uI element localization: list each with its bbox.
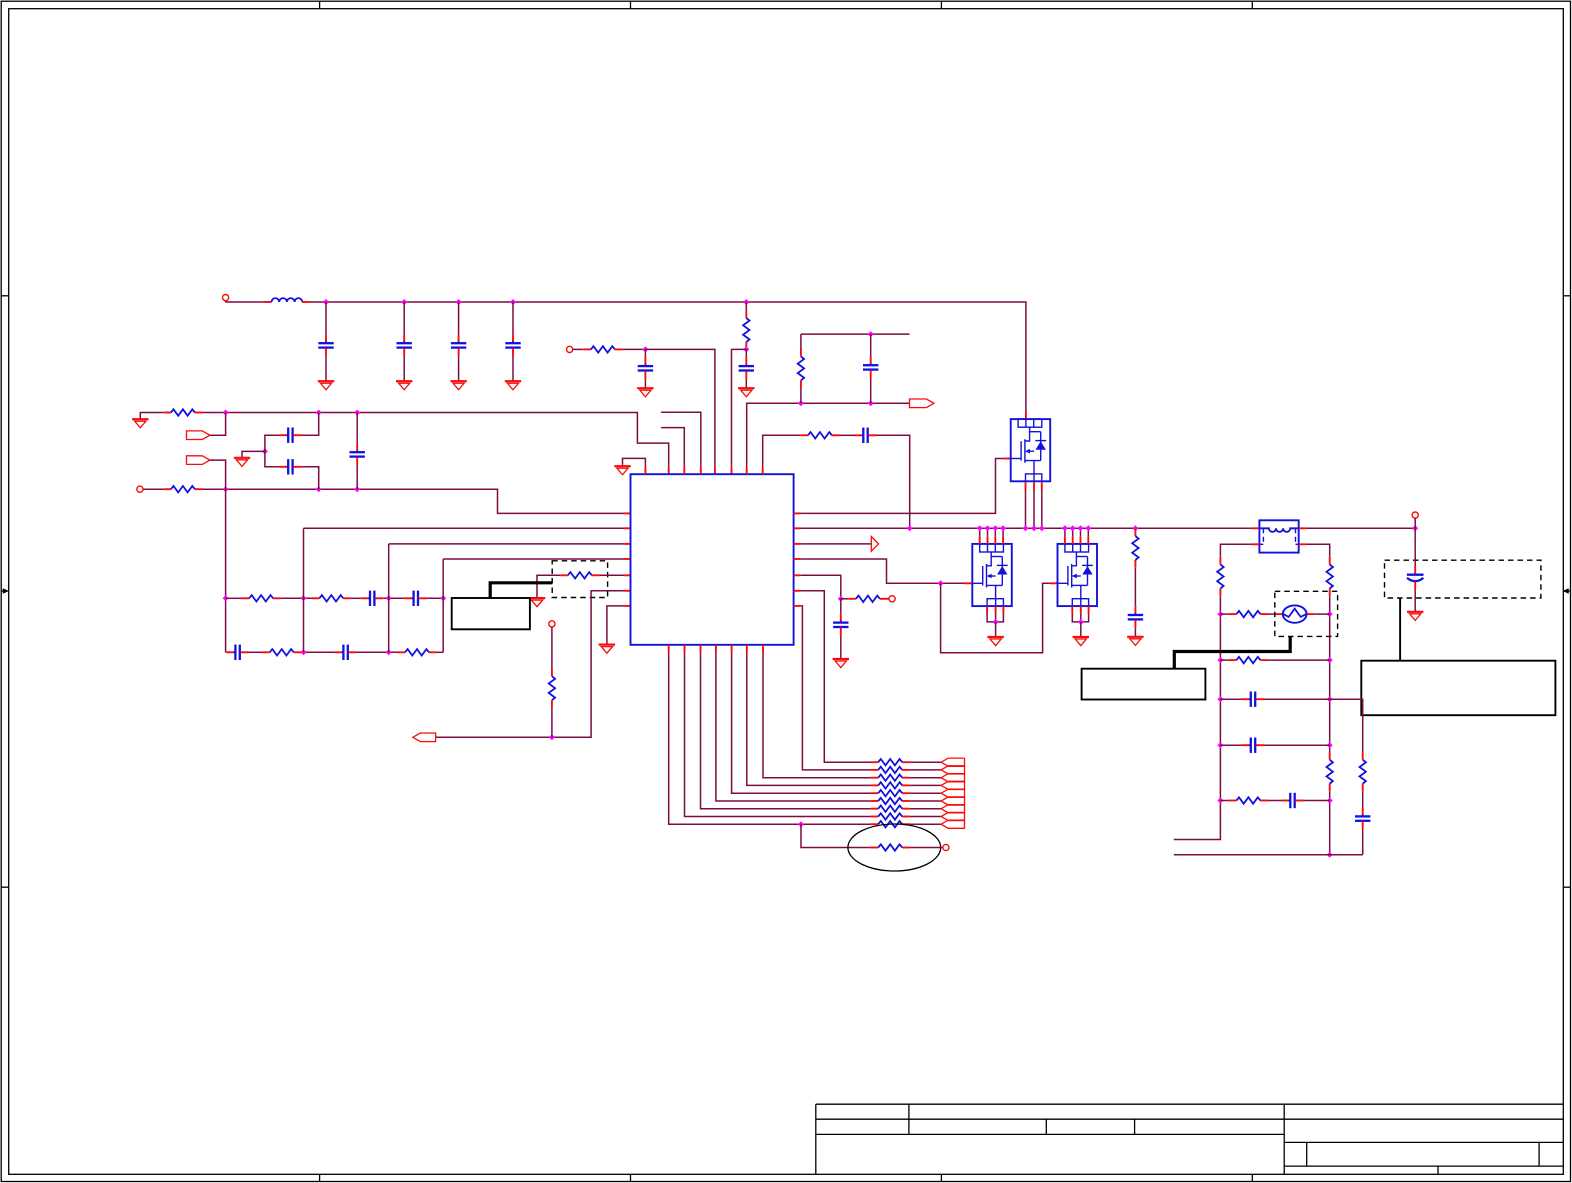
resistor R3 vertical bbox=[743, 310, 749, 349]
wire row5 to connector bbox=[910, 792, 941, 794]
terminal J8 pack+ bbox=[1412, 512, 1418, 518]
resistor R4 bbox=[798, 349, 804, 388]
wire C2 drop bbox=[403, 302, 405, 334]
wire row5 seg1 bbox=[1220, 800, 1228, 802]
wire ladder vertical 2 bbox=[303, 528, 305, 652]
pin stub IC top 3 bbox=[683, 466, 685, 474]
pin stub IC right 6 bbox=[794, 590, 801, 592]
wire cell row 6 feed bbox=[716, 653, 871, 801]
junction B3 bbox=[354, 486, 360, 492]
pin stub IC right 2 bbox=[794, 527, 801, 529]
capacitor C14 bbox=[405, 591, 427, 606]
pin stub Q3 gate bbox=[1050, 582, 1058, 584]
ground at C3 bbox=[450, 381, 466, 390]
wire C22 to bottom node bbox=[1362, 830, 1364, 855]
capacitor C2 bbox=[397, 334, 412, 356]
junction row9 / motor branch bbox=[798, 821, 804, 827]
wire R3 node to IC pin bbox=[732, 349, 747, 466]
wire C4 to ground bbox=[512, 356, 514, 381]
wire row6 to connector bbox=[910, 800, 941, 802]
wire cell row 9 feed bbox=[669, 653, 871, 825]
junction Q2 d3 bbox=[992, 525, 998, 531]
resistor RN7 bbox=[871, 806, 910, 812]
junction R6r bbox=[1327, 852, 1333, 858]
pin stub IC bottom 1 bbox=[668, 645, 670, 653]
wire J8 to junction bbox=[1414, 518, 1416, 528]
capacitor C17 bbox=[855, 428, 877, 443]
wire line A to C7 bbox=[356, 413, 358, 444]
wire R13 to J5 bbox=[888, 598, 890, 600]
wire fuse sense right bbox=[1306, 544, 1330, 557]
wire R2 to C8 node bbox=[623, 348, 646, 350]
wire row7 to connector bbox=[910, 808, 941, 810]
junction FB top/C10 bbox=[868, 331, 874, 337]
thick wire thermistor to B2 bbox=[1174, 636, 1290, 668]
resistor R13 bbox=[848, 596, 887, 602]
wire status net bbox=[800, 543, 871, 545]
junction FB/C10 bbox=[868, 400, 874, 406]
wire P2 down left rail bbox=[210, 460, 226, 652]
wire motor branch bbox=[801, 824, 871, 847]
wire series RC net bbox=[763, 435, 801, 466]
wire R21 to C22 bbox=[1362, 791, 1364, 807]
wire upper rail seg5 bbox=[427, 597, 443, 599]
resistor RN6 bbox=[871, 798, 910, 804]
resistor R10 bbox=[397, 649, 436, 655]
junction L3r bbox=[1217, 696, 1223, 702]
capacitor C18 polarized bbox=[1407, 566, 1424, 590]
wire cell row 2 feed bbox=[800, 606, 871, 770]
pin stub fuse left top bbox=[1252, 527, 1260, 529]
wire cell row 5 feed bbox=[732, 653, 871, 794]
ground Q2 bbox=[987, 637, 1003, 646]
pin stub IC left 2 bbox=[624, 527, 631, 529]
wire C10 top bbox=[870, 334, 872, 356]
junction L4r bbox=[1217, 742, 1223, 748]
ground at C1 bbox=[318, 381, 334, 390]
wire lower rail seg4 bbox=[357, 651, 398, 653]
wire R5 to C17 bbox=[840, 434, 855, 436]
junction R5r bbox=[1327, 798, 1333, 804]
junction R2r bbox=[1327, 657, 1333, 663]
wire node to ground arm bbox=[242, 451, 265, 457]
junction B1 bbox=[223, 486, 229, 492]
battery block B2 bbox=[1082, 669, 1206, 700]
connector J6 pin 1 bbox=[941, 758, 964, 766]
pin stub IC right 3 bbox=[794, 543, 801, 545]
junction lower rail C16a bbox=[386, 649, 392, 655]
ground C12 bbox=[1127, 637, 1143, 646]
wire Q2 source to ground bbox=[995, 622, 997, 637]
junction pack bbox=[1412, 525, 1418, 531]
dashed box ESD bbox=[1385, 560, 1541, 598]
wire junction to C18 bbox=[1414, 528, 1416, 566]
junction A3 bbox=[354, 410, 360, 416]
pin stub IC left 5 bbox=[624, 574, 631, 576]
connector J6 pin 6 bbox=[941, 797, 964, 805]
arrow terminal PROG bbox=[413, 733, 436, 742]
wire Q3 source pins tied bbox=[1072, 606, 1088, 622]
pin stub IC top 2 bbox=[668, 466, 670, 474]
wire upper rail seg3 bbox=[351, 597, 361, 599]
ground C11 bbox=[833, 659, 849, 668]
ground at C4 bbox=[505, 381, 521, 390]
wire J1 to L1 bbox=[226, 301, 264, 303]
resistor R16 right rail bbox=[1327, 557, 1333, 596]
wire Q3 source to ground bbox=[1080, 622, 1082, 637]
wire lower rail seg5 bbox=[437, 651, 444, 653]
thick wire B1 to shunt bbox=[490, 583, 552, 598]
junction Q3 d3 bbox=[1078, 525, 1084, 531]
wire C4 drop bbox=[512, 302, 514, 334]
wire net FB bbox=[747, 403, 910, 466]
junction upper rail C14a bbox=[440, 595, 446, 601]
junction top rail at C2 bbox=[401, 299, 407, 305]
wire row3 to connector bbox=[910, 777, 941, 779]
wire Q2 drain pins to SW rail bbox=[980, 528, 1003, 544]
wire row3 seg1 bbox=[1220, 698, 1242, 700]
wire Q1 source pins to SW rail bbox=[1026, 482, 1042, 528]
ground at C9 bbox=[738, 388, 754, 397]
resistor R14 (in M1) bbox=[871, 844, 910, 850]
capacitor C11 bbox=[833, 614, 848, 636]
resistor RN5 bbox=[871, 790, 910, 796]
wire C7 to line B bbox=[356, 465, 358, 489]
pin stub IC bottom 5 bbox=[731, 645, 733, 653]
ground at C8 bbox=[637, 388, 653, 397]
ground Q3 bbox=[1073, 637, 1089, 646]
transistor Q2 bbox=[972, 544, 1012, 606]
pin stub IC bottom 4 bbox=[715, 645, 717, 653]
capacitor C7 between lines bbox=[350, 443, 365, 465]
wire P1 to line A bbox=[210, 413, 226, 436]
wire IC pin6 to PROG arrow bbox=[436, 591, 624, 738]
wire FB top rail bbox=[801, 333, 910, 335]
pin stub IC left 1 bbox=[624, 512, 631, 514]
border centre arrow right bbox=[1563, 590, 1570, 592]
pin stub IC right 4 bbox=[794, 558, 801, 560]
resistor RN1 bbox=[871, 759, 910, 765]
wire sense net bbox=[800, 575, 841, 599]
capacitor C8 bbox=[638, 357, 653, 379]
TITLE BLOCK bbox=[816, 1104, 1564, 1174]
pin stub IC top 4 bbox=[700, 466, 702, 474]
wire row4 seg1 bbox=[1220, 744, 1242, 746]
IC U1 body bbox=[631, 474, 794, 645]
wire cell row 1 feed bbox=[800, 591, 871, 762]
junction Q2 d1 bbox=[977, 525, 983, 531]
wire row2 seg2 bbox=[1268, 659, 1330, 661]
wire C9 to ground bbox=[745, 379, 747, 388]
junction Q3 d1 bbox=[1062, 525, 1068, 531]
wire gnd riser A bbox=[140, 413, 163, 420]
wire SW rail bbox=[800, 527, 1251, 529]
wire C8 node to IC pin bbox=[645, 349, 715, 466]
connector J6 pin 8 bbox=[941, 812, 964, 820]
pin stub IC left 3 bbox=[624, 543, 631, 545]
wire R14 to J7 bbox=[910, 847, 943, 849]
connector J6 pin 4 bbox=[941, 781, 964, 789]
wire upper rail seg1 bbox=[226, 597, 242, 599]
junction Q2 d4 bbox=[1000, 525, 1006, 531]
wire pack minus bottom bbox=[1174, 854, 1363, 856]
wire input line A bbox=[203, 413, 669, 467]
capacitor C3 bbox=[451, 334, 466, 356]
battery block B3 bbox=[1361, 661, 1555, 716]
wire row1 to connector bbox=[910, 761, 941, 763]
pin stub IC top 7 bbox=[746, 466, 748, 474]
node R3/C9 bbox=[743, 346, 749, 352]
resistor R17 in right rail bbox=[1327, 752, 1333, 791]
ground at C2 bbox=[396, 381, 412, 390]
capacitor C9 bbox=[739, 357, 754, 379]
wire Q2 source pins tied bbox=[987, 606, 1003, 622]
wire left rail bbox=[1174, 596, 1221, 839]
wire shunt left arm bbox=[537, 575, 560, 598]
terminal J4 bbox=[549, 621, 555, 627]
wire lower rail seg3 bbox=[301, 651, 334, 653]
pin stub IC bottom 6 bbox=[746, 645, 748, 653]
dashed box shunt bbox=[552, 561, 607, 598]
wire RT1 to right rail bbox=[1314, 613, 1329, 615]
junction upper rail C13a bbox=[386, 595, 392, 601]
resistor R11 shunt bbox=[560, 572, 599, 578]
junction R3r bbox=[1327, 696, 1333, 702]
battery block B1 bbox=[452, 598, 530, 629]
wire upper rail seg2 bbox=[281, 597, 312, 599]
motor ellipse M1 bbox=[848, 824, 941, 871]
junction A1 bbox=[223, 410, 229, 416]
junction SW/RC bbox=[907, 525, 913, 531]
wire C3 to ground bbox=[458, 356, 460, 381]
pin stub IC bottom 2 bbox=[684, 645, 686, 653]
capacitor C10 bbox=[863, 356, 878, 378]
wire ladder vertical 3 bbox=[388, 544, 390, 652]
resistor RN3 bbox=[871, 775, 910, 781]
wire IC pin3 to ladder bbox=[389, 543, 624, 545]
resistor R12 bbox=[549, 669, 555, 708]
arrow terminal FB out bbox=[910, 399, 935, 408]
capacitor C6 bbox=[279, 459, 301, 474]
junction PROG/R12 bbox=[549, 734, 555, 740]
connector J6 pin 9 bbox=[941, 820, 964, 828]
junction Q1 s1 bbox=[1023, 525, 1029, 531]
wire cell row 3 feed bbox=[763, 653, 871, 778]
wire sense to C11 bbox=[840, 599, 842, 614]
wire C8 to ground bbox=[644, 379, 646, 388]
dashed box thermistor bbox=[1275, 591, 1338, 636]
resistor R15 left rail bbox=[1217, 557, 1223, 596]
wire C12 to ground bbox=[1134, 628, 1136, 637]
wire IC pin2 to ladder bbox=[304, 527, 625, 529]
pin stub IC top 8 bbox=[762, 466, 764, 474]
terminal J2 bbox=[567, 346, 573, 352]
capacitor C1 bbox=[318, 334, 333, 356]
wire Q3 drain pins to SW rail bbox=[1065, 528, 1088, 544]
wire R6 to C12 bbox=[1134, 568, 1136, 607]
wire cell row 7 feed bbox=[701, 653, 871, 809]
junction top rail at C4 bbox=[510, 299, 516, 305]
connector J6 pin 5 bbox=[941, 789, 964, 797]
pin stub fuse right bottom bbox=[1299, 543, 1306, 545]
wire row4 seg2 bbox=[1264, 744, 1330, 746]
pin stub IC right 5 bbox=[794, 574, 801, 576]
wire R18 to RT1 bbox=[1268, 613, 1275, 615]
wire node down to C6 bbox=[265, 451, 280, 466]
junction R4r bbox=[1327, 742, 1333, 748]
wire stub net T4 bbox=[661, 412, 701, 466]
wire right rail lower bbox=[1329, 791, 1331, 854]
wire C11 to ground bbox=[840, 636, 842, 659]
terminal J3 bbox=[137, 486, 143, 492]
wire C18 to ground bbox=[1414, 590, 1416, 612]
wire right rail upper bbox=[1329, 596, 1331, 752]
pin stub Q1 drain bbox=[1025, 412, 1027, 420]
wire C3 drop bbox=[458, 302, 460, 334]
pin stub Q2 gate bbox=[964, 582, 972, 584]
wire row2 seg1 bbox=[1220, 659, 1228, 661]
junction B2 bbox=[316, 486, 322, 492]
resistor RN9 bbox=[871, 821, 910, 827]
wire input line B bbox=[203, 489, 625, 513]
junction sense bbox=[838, 596, 844, 602]
junction Q3 d2 bbox=[1070, 525, 1076, 531]
resistor R2 bbox=[583, 346, 622, 352]
wire C21 to right rail bbox=[1304, 800, 1330, 802]
wire C1 drop bbox=[325, 302, 327, 334]
pin stub J1 bbox=[225, 301, 227, 303]
capacitor C15 bbox=[227, 645, 249, 660]
wire R20 to C21 bbox=[1268, 800, 1282, 802]
wire FB top link bbox=[800, 387, 802, 403]
capacitor C13 bbox=[361, 591, 383, 606]
pin stub fuse right top bbox=[1299, 527, 1306, 529]
wire fuse to pack terminal bbox=[1306, 527, 1415, 529]
thermistor RT1 bbox=[1275, 605, 1314, 622]
wire shunt left to ground bbox=[599, 574, 624, 576]
capacitor C5 bbox=[279, 428, 301, 443]
resistor R1b bbox=[163, 486, 202, 492]
ground C18 bbox=[1407, 612, 1423, 621]
wire row8 to connector bbox=[910, 816, 941, 818]
pin stub IC left 7 bbox=[624, 605, 631, 607]
resistor RN4 bbox=[871, 782, 910, 788]
wire cell row 8 feed bbox=[685, 653, 871, 817]
ground IC pin7 bbox=[599, 645, 615, 654]
wire R3 node to C9 bbox=[745, 349, 747, 357]
capacitor C16 bbox=[335, 645, 357, 660]
junction Q3 source node bbox=[1078, 619, 1084, 625]
terminal J7 bbox=[943, 844, 949, 850]
wire fuse sense left bbox=[1220, 544, 1251, 557]
resistor RN8 bbox=[871, 813, 910, 819]
resistor R9 bbox=[262, 649, 301, 655]
junction lower rail R9a bbox=[301, 649, 307, 655]
junction Q2 d2 bbox=[985, 525, 991, 531]
junction L1r bbox=[1217, 611, 1223, 617]
terminal J5 bbox=[889, 596, 895, 602]
connector J6 pin 7 bbox=[941, 805, 964, 813]
node mid coupling bbox=[262, 448, 268, 454]
wire C6 to line B bbox=[301, 467, 318, 489]
ground IC top 1 bbox=[614, 466, 630, 475]
wire ladder vertical 4 bbox=[442, 559, 444, 652]
wire top rail to R3 bbox=[745, 302, 747, 310]
wire row9 to connector bbox=[910, 823, 941, 825]
resistor R21 branch bbox=[1360, 752, 1366, 791]
capacitor C22 bbox=[1355, 808, 1370, 830]
pin stub fuse left bottom bbox=[1252, 543, 1260, 545]
wire C2 to ground bbox=[403, 356, 405, 381]
connector J6 bus bbox=[964, 758, 966, 829]
wire J4 to R12 bbox=[551, 627, 553, 669]
transistor Q1 bbox=[1011, 419, 1050, 481]
resistor R18 bbox=[1229, 611, 1268, 617]
fuse F1 bbox=[1259, 520, 1298, 552]
input arrow terminal P2 bbox=[187, 456, 210, 465]
wire node to C8 bbox=[644, 349, 646, 357]
capacitor C19 bbox=[1242, 692, 1264, 707]
resistor R7 bbox=[242, 595, 281, 601]
pin stub IC top 1 bbox=[644, 466, 646, 474]
junction Q3 d4 bbox=[1085, 525, 1091, 531]
junction FB/R4 bbox=[798, 400, 804, 406]
resistor R19 bbox=[1229, 657, 1268, 663]
wire lower rail seg1 (cap lead) bbox=[226, 651, 227, 653]
junction top rail at C1 bbox=[323, 299, 329, 305]
wire row3 seg2 bbox=[1264, 698, 1330, 700]
junction A2 bbox=[316, 410, 322, 416]
resistor R8 bbox=[312, 595, 351, 601]
wire gate branch to Q3 bbox=[941, 583, 1050, 653]
pin stub IC top 5 bbox=[714, 466, 716, 474]
resistor RN2 bbox=[871, 767, 910, 773]
connector J6 pin 3 bbox=[941, 774, 964, 782]
input arrow terminal P1 bbox=[187, 431, 210, 440]
wire lower rail seg2 bbox=[249, 651, 263, 653]
wire R12 to PROG line bbox=[551, 708, 553, 738]
wire gate drive Q1 bbox=[800, 459, 1003, 514]
IC top pin ground bend bbox=[623, 458, 646, 466]
wire C5 to line A bbox=[301, 413, 318, 436]
junction Q1 s2 bbox=[1031, 525, 1037, 531]
junction SW/R6 bbox=[1132, 525, 1138, 531]
wire stub net T3 bbox=[661, 428, 684, 467]
pin stub IC left 4 bbox=[624, 558, 631, 560]
wire row TH seg1 bbox=[1220, 613, 1228, 615]
wire top power rail bbox=[310, 302, 1026, 412]
capacitor C20 bbox=[1242, 738, 1264, 753]
wire IC pin4 to ladder bbox=[443, 558, 624, 560]
wire R4 top bbox=[800, 334, 802, 349]
junction L2r bbox=[1217, 657, 1223, 663]
connector J6 pin 2 bbox=[941, 766, 964, 774]
resistor R6 bbox=[1132, 528, 1138, 567]
wire C1 to ground bbox=[325, 356, 327, 381]
pin stub Q1 gate bbox=[1003, 458, 1011, 460]
wire cell row 4 feed bbox=[747, 653, 871, 786]
junction gate branch bbox=[938, 580, 944, 586]
terminal J1 bbox=[223, 295, 229, 301]
junction L5r bbox=[1217, 798, 1223, 804]
junction R1r bbox=[1327, 611, 1333, 617]
wire upper rail seg4 bbox=[383, 597, 405, 599]
transistor Q3 bbox=[1058, 544, 1098, 606]
junction top rail at C3 bbox=[456, 299, 462, 305]
junction upper rail left bbox=[223, 595, 229, 601]
junction Q2 source node bbox=[993, 619, 999, 625]
pin stub IC left 6 bbox=[624, 590, 631, 592]
